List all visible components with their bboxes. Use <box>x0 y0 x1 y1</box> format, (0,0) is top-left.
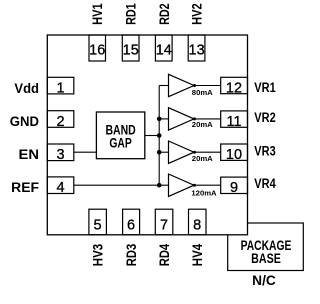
wire bus to buffer 1 input <box>159 85 168 87</box>
pin 11 <box>221 111 248 130</box>
wire bus to buffer 3 input <box>159 151 168 153</box>
svg-text:20mA: 20mA <box>192 154 213 163</box>
svg-text:HV4: HV4 <box>190 243 205 266</box>
svg-text:13: 13 <box>189 42 205 58</box>
IC body outline <box>47 35 247 235</box>
pin 8 <box>189 209 207 235</box>
pin 2 <box>47 111 74 130</box>
svg-text:9: 9 <box>230 180 238 196</box>
wire buffer 4 output to pin 9 <box>194 184 221 186</box>
junction dot buffer 1 tip <box>193 84 196 87</box>
svg-text:VR3: VR3 <box>254 143 276 158</box>
junction dot bus-buffer2 <box>157 117 162 122</box>
pin 13 <box>188 35 205 61</box>
svg-text:RD1: RD1 <box>124 3 139 25</box>
svg-text:VR1: VR1 <box>254 80 276 95</box>
buffer amplifier 2 <box>169 108 214 130</box>
svg-text:6: 6 <box>127 217 135 233</box>
pin 7 <box>155 209 173 235</box>
buffer amplifier 3 <box>169 141 214 163</box>
pin 14 <box>155 35 172 61</box>
wire buffer 1 output to pin 12 <box>194 85 221 87</box>
svg-text:11: 11 <box>226 114 241 130</box>
pin 16 <box>89 35 106 61</box>
svg-text:Vdd: Vdd <box>14 81 39 96</box>
svg-text:3: 3 <box>56 147 64 163</box>
junction dot bus-buffer3 <box>157 150 162 155</box>
svg-text:8: 8 <box>193 217 201 233</box>
svg-text:HV1: HV1 <box>90 3 105 25</box>
svg-text:RD2: RD2 <box>157 3 172 25</box>
svg-text:10: 10 <box>226 147 242 163</box>
svg-text:12: 12 <box>226 80 242 96</box>
pin 1 <box>47 77 74 96</box>
svg-text:VR2: VR2 <box>254 110 275 125</box>
junction dot buffer 4 tip <box>193 184 196 187</box>
junction dot bus-bandgap <box>157 133 162 138</box>
svg-text:7: 7 <box>160 217 168 233</box>
svg-text:20mA: 20mA <box>192 120 213 129</box>
svg-text:16: 16 <box>89 42 105 58</box>
svg-text:REF: REF <box>11 180 39 195</box>
svg-text:GND: GND <box>10 114 39 129</box>
svg-text:120mA: 120mA <box>191 188 217 197</box>
svg-text:RD3: RD3 <box>124 243 139 266</box>
svg-text:15: 15 <box>123 42 139 58</box>
svg-text:BASE: BASE <box>251 251 281 266</box>
junction dot bus-ref <box>157 183 162 188</box>
svg-text:2: 2 <box>56 114 64 130</box>
svg-text:HV2: HV2 <box>190 3 205 25</box>
svg-text:GAP: GAP <box>109 136 131 151</box>
wire band gap output to bus <box>145 135 159 137</box>
wire bus to buffer 2 input <box>159 118 168 120</box>
svg-text:4: 4 <box>56 180 64 196</box>
pin 10 <box>221 144 248 163</box>
junction dot buffer 3 tip <box>193 151 196 154</box>
svg-text:RD4: RD4 <box>157 243 172 266</box>
wire buffer 2 output to pin 11 <box>194 118 221 120</box>
pin 4 <box>47 177 74 196</box>
pin 6 <box>123 209 140 235</box>
svg-text:EN: EN <box>19 147 40 162</box>
buffer amplifier 4 <box>169 174 218 197</box>
pin 9 <box>221 177 248 196</box>
pin 15 <box>122 35 139 61</box>
wire REF to buffer 4 input <box>74 184 169 186</box>
junction dot buffer 2 tip <box>193 117 196 120</box>
svg-text:1: 1 <box>56 81 64 97</box>
svg-text:80mA: 80mA <box>192 88 213 97</box>
buffer amplifier 1 <box>169 74 214 97</box>
package base block <box>228 223 304 271</box>
svg-text:N/C: N/C <box>252 273 276 288</box>
pin 3 <box>47 144 74 163</box>
svg-text:VR4: VR4 <box>254 176 276 191</box>
pin 5 <box>89 209 107 235</box>
svg-text:HV3: HV3 <box>91 243 106 266</box>
pin 12 <box>221 77 248 96</box>
wire EN to band gap <box>74 151 97 153</box>
band gap block <box>96 112 144 159</box>
wire reference bus vertical <box>158 86 160 186</box>
svg-text:5: 5 <box>93 217 101 233</box>
wire buffer 3 output to pin 10 <box>194 151 221 153</box>
svg-text:14: 14 <box>156 42 172 58</box>
